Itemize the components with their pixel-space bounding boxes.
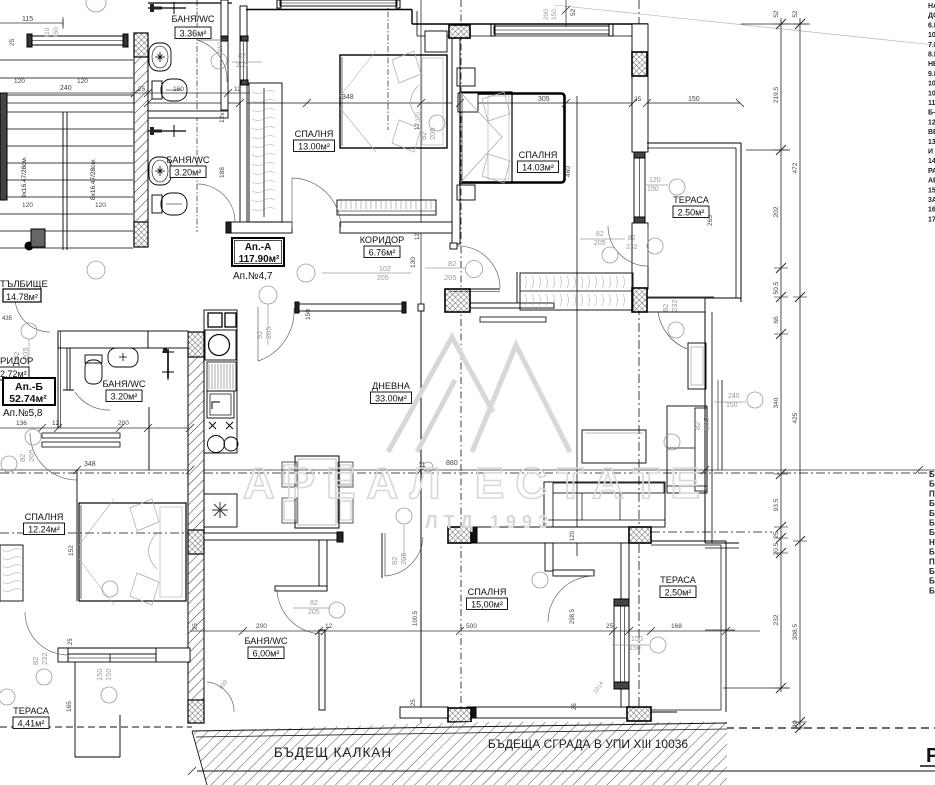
level circle entry: [466, 261, 483, 278]
svg-text:16.: 16.: [928, 207, 935, 214]
svg-text:120: 120: [22, 202, 33, 209]
svg-text:3.20м²: 3.20м²: [111, 392, 138, 402]
wall column W1: [134, 33, 148, 247]
terrace1 right: [735, 148, 737, 298]
svg-text:205: 205: [377, 275, 389, 282]
svg-text:205: 205: [428, 127, 437, 140]
dim line y631: [190, 630, 760, 632]
svg-text:82: 82: [238, 53, 246, 60]
bath6 partition v: [319, 534, 327, 590]
svg-text:205: 205: [264, 326, 273, 339]
svg-text:Ап.-А: Ап.-А: [245, 242, 272, 253]
apB bath left wall: [57, 331, 59, 428]
level 82/205 c: [602, 247, 618, 263]
svg-text:150: 150: [629, 645, 641, 652]
fridge: [204, 494, 237, 527]
window top b2: [494, 26, 609, 34]
svg-text:10: 10: [792, 720, 799, 728]
tick y631: [239, 627, 247, 635]
svg-text:25: 25: [9, 38, 16, 46]
svg-text:110: 110: [44, 27, 51, 38]
svg-text:3А: 3А: [928, 197, 935, 204]
door cap bath1: [221, 36, 228, 41]
boundary dash right: [726, 727, 935, 729]
wall y533 kitchen-bath: [204, 533, 337, 540]
svg-text:10.: 10.: [928, 90, 935, 97]
crosshatch block: [448, 527, 471, 543]
terrace1 left wall: [632, 24, 648, 152]
tick y631: [625, 627, 633, 635]
tv cabinet: [688, 343, 706, 389]
svg-text:102: 102: [379, 266, 391, 273]
dim ext y688: [723, 687, 790, 689]
wall nook b3: [545, 543, 553, 571]
svg-text:ДО: ДО: [928, 13, 935, 20]
svg-text:25: 25: [634, 96, 642, 103]
svg-text:150: 150: [631, 636, 643, 643]
tick y93: [131, 89, 139, 97]
crosshatch block: [632, 288, 647, 312]
svg-text:БАНЯ/WC: БАНЯ/WC: [102, 379, 145, 389]
svg-text:12.: 12.: [928, 119, 935, 126]
stair window: [30, 36, 125, 45]
level 82/232 t1: [647, 238, 663, 254]
tick y103: [417, 99, 425, 107]
tick y103: [456, 99, 464, 107]
tick y93: [144, 89, 152, 97]
svg-text:425: 425: [792, 412, 799, 423]
svg-text:150: 150: [305, 309, 312, 320]
black cap2: [467, 707, 476, 718]
axis line 1: [196, 0, 198, 232]
svg-text:ТЕРАСА: ТЕРАСА: [13, 706, 50, 716]
svg-text:Б: Б: [929, 480, 935, 489]
door entry cap: [450, 243, 457, 249]
svg-text:14.78м²: 14.78м²: [6, 292, 38, 302]
svg-text:200: 200: [543, 9, 550, 20]
tick y103: [236, 99, 244, 107]
dim line y428: [0, 427, 190, 429]
nook wall entry: [516, 272, 518, 303]
svg-text:205: 205: [236, 62, 248, 69]
svg-text:4,41м²: 4,41м²: [18, 719, 45, 729]
svg-text:152: 152: [68, 545, 75, 556]
bed3 wall line: [76, 470, 78, 601]
svg-text:472: 472: [792, 162, 799, 173]
nightstand B2b: [457, 185, 475, 200]
level 102/205: [297, 264, 315, 282]
svg-text:7.П: 7.П: [928, 42, 935, 49]
svg-text:100.5: 100.5: [413, 610, 419, 626]
left wall bar: [0, 93, 7, 200]
svg-text:Ап.№5,8: Ап.№5,8: [3, 408, 43, 419]
svg-text:3.20м²: 3.20м²: [175, 168, 202, 178]
svg-text:Р: Р: [926, 745, 935, 767]
dim ext y150: [746, 149, 790, 151]
door bath2: [197, 184, 235, 222]
svg-text:435: 435: [2, 316, 13, 322]
corridor wall: [295, 304, 405, 311]
svg-text:НА: НА: [928, 3, 935, 10]
bedroom2 bold outline: [459, 94, 565, 183]
level 82/205 d: [396, 508, 412, 524]
bedroom2 top wall: [412, 23, 648, 25]
sofa: [544, 482, 665, 527]
sink bath2: [149, 157, 171, 185]
terrace2 bottom: [629, 709, 721, 711]
terrace4 bottom: [75, 756, 120, 758]
crosshatch block: [632, 52, 647, 76]
svg-text:РИДОР: РИДОР: [0, 356, 33, 367]
svg-text:КОРИДОР: КОРИДОР: [360, 235, 405, 245]
svg-text:93.5: 93.5: [773, 498, 780, 511]
bath right wall: [221, 0, 228, 110]
svg-text:52: 52: [792, 10, 799, 18]
legend list bottom: [929, 470, 935, 595]
wall below window: [632, 223, 648, 289]
window b1 cap l: [277, 0, 281, 8]
crosshatch block: [629, 527, 651, 543]
watermark text: [243, 459, 711, 532]
bed B3: [79, 499, 186, 605]
svg-text:П: П: [929, 489, 935, 498]
bath6 partition h: [275, 586, 327, 591]
svg-text:117.90м²: 117.90м²: [239, 254, 280, 265]
axis bed3: [0, 532, 190, 534]
railing line: [721, 380, 723, 470]
svg-text:120: 120: [649, 177, 661, 184]
door bedroom1: [292, 178, 341, 228]
living right wall: [704, 312, 706, 543]
door apB bed: [30, 433, 77, 480]
tick y428: [186, 424, 194, 432]
tick y470: [915, 466, 923, 474]
svg-text:205: 205: [308, 609, 320, 616]
svg-text:РА: РА: [928, 168, 935, 175]
shelf1: [42, 433, 120, 438]
svg-text:6,00м²: 6,00м²: [253, 649, 280, 659]
room bath1: [171, 14, 214, 39]
svg-text:Б: Б: [929, 577, 935, 586]
svg-text:НБ: НБ: [928, 61, 935, 68]
bedroom1 left wall: [240, 6, 247, 228]
svg-text:Ап.-Б: Ап.-Б: [15, 381, 43, 393]
tick y103: [562, 99, 570, 107]
door bath1: [197, 40, 227, 82]
tick y470: [701, 466, 709, 474]
svg-text:232: 232: [670, 299, 679, 312]
svg-text:82: 82: [18, 454, 27, 462]
svg-text:Б: Б: [929, 470, 935, 479]
apB wall band: [58, 331, 148, 348]
tick y23: [62, 19, 64, 27]
room bedroom12: [24, 512, 65, 535]
bed B2: [460, 92, 512, 183]
wardrobe B3: [0, 545, 23, 601]
svg-text:92: 92: [255, 331, 264, 339]
legend list top: [928, 3, 935, 223]
door arc bath6 entry: [385, 537, 423, 576]
svg-text:168: 168: [671, 623, 682, 630]
tick y631: [722, 627, 730, 635]
svg-text:82: 82: [596, 231, 604, 238]
door bath6 inner: [277, 589, 323, 634]
svg-text:82: 82: [661, 304, 670, 312]
window cap: [614, 599, 629, 606]
svg-text:2.50м²: 2.50м²: [678, 208, 705, 218]
svg-text:ТЪЛБИЩЕ: ТЪЛБИЩЕ: [0, 279, 48, 290]
svg-text:33.00м²: 33.00м²: [375, 394, 407, 404]
svg-text:205: 205: [594, 240, 606, 247]
stair tread: [0, 77, 133, 79]
svg-text:308.5: 308.5: [792, 623, 799, 640]
level 82/205 e: [21, 323, 37, 339]
svg-text:219.5: 219.5: [773, 86, 780, 103]
svg-text:ТЕРАСА: ТЕРАСА: [673, 195, 710, 205]
svg-text:17.: 17.: [928, 216, 935, 223]
terrace2 top: [651, 540, 726, 542]
svg-text:136: 136: [16, 420, 27, 427]
svg-text:82: 82: [693, 422, 702, 430]
svg-text:ДНЕВНА: ДНЕВНА: [372, 381, 411, 391]
extension line x421: [420, 0, 422, 785]
bedroom1 top wall: [246, 9, 412, 11]
svg-text:298.5: 298.5: [570, 608, 576, 624]
axis line x639: [638, 0, 640, 785]
top wall: [148, 2, 232, 4]
svg-text:13.00м²: 13.00м²: [298, 142, 330, 152]
watermark logo: [388, 337, 570, 452]
level g: [25, 429, 41, 445]
tick y631: [456, 627, 464, 635]
svg-text:460: 460: [565, 166, 572, 177]
svg-text:20.5: 20.5: [773, 542, 780, 555]
tick y103: [629, 99, 637, 107]
svg-text:Б: Б: [929, 586, 935, 595]
room bath3: [102, 379, 145, 402]
sink bath1: [149, 43, 171, 71]
tick y103 end: [736, 99, 744, 107]
level 92/205: [259, 286, 277, 304]
terrace2 right: [720, 545, 722, 710]
svg-text:52: 52: [773, 10, 780, 18]
door bath3: [75, 392, 110, 410]
svg-text:150: 150: [647, 186, 659, 193]
future building hatch: [188, 722, 935, 785]
svg-text:ТЕРАСА: ТЕРАСА: [660, 575, 697, 585]
svg-text:СПАЛНЯ: СПАЛНЯ: [468, 587, 507, 597]
radiator bath1: [148, 2, 186, 14]
pipe bath3: [66, 347, 68, 390]
level circle bath1: [211, 53, 227, 69]
room bedroom1: [294, 129, 335, 152]
crosshatch block: [449, 25, 470, 38]
wall ext x566: [565, 0, 567, 27]
stair rail: [62, 112, 64, 250]
door leaf bath6: [381, 533, 383, 578]
svg-text:340: 340: [773, 397, 780, 408]
svg-text:10: 10: [928, 81, 935, 88]
svg-text:82: 82: [31, 657, 40, 665]
bottom wall a: [400, 707, 448, 718]
stove x2: [226, 422, 233, 429]
window cap: [614, 682, 629, 689]
svg-text:Ап.№4,7: Ап.№4,7: [233, 271, 273, 282]
svg-text:13.: 13.: [928, 139, 935, 146]
svg-text:120: 120: [77, 78, 88, 85]
svg-text:11.: 11.: [928, 100, 935, 107]
svg-text:150: 150: [104, 668, 113, 681]
wall nook b3b: [553, 570, 594, 576]
coffee table: [582, 430, 646, 463]
svg-text:150: 150: [551, 9, 558, 20]
svg-text:188: 188: [219, 167, 226, 178]
svg-text:160: 160: [173, 86, 184, 93]
svg-text:П: П: [929, 557, 935, 566]
svg-text:130: 130: [410, 257, 417, 268]
tick y470: [73, 466, 81, 474]
svg-text:3.36м²: 3.36м²: [180, 29, 207, 39]
svg-text:52.74м²: 52.74м²: [9, 393, 47, 405]
shoe shelf: [480, 317, 546, 322]
svg-text:12: 12: [325, 623, 333, 630]
dim axis y103: [0, 102, 740, 104]
svg-text:232: 232: [626, 244, 638, 251]
apartment A label: [232, 238, 284, 282]
svg-text:15,00м²: 15,00м²: [471, 600, 503, 610]
svg-text:6.76м²: 6.76м²: [369, 248, 396, 258]
svg-text:Б: Б: [929, 499, 935, 508]
svg-text:15.: 15.: [928, 187, 935, 194]
svg-text:БАНЯ/WC: БАНЯ/WC: [166, 155, 209, 165]
wall cap y533: [337, 532, 343, 542]
axis line y535: [651, 531, 772, 533]
shower wall: [319, 630, 325, 710]
site boundary diagonal: [554, 5, 935, 45]
svg-text:14.: 14.: [928, 158, 935, 165]
toilet bath1: [152, 79, 187, 101]
svg-text:Б: Б: [929, 528, 935, 537]
terrace4 side: [74, 662, 76, 757]
window b3b: [614, 599, 629, 689]
wall line x577: [576, 96, 578, 556]
axis line y473: [0, 472, 935, 474]
svg-text:ЛТД 1993: ЛТД 1993: [425, 512, 554, 532]
crosshatch block: [448, 708, 471, 722]
dim ext y630: [705, 629, 735, 631]
svg-text:150: 150: [688, 96, 700, 103]
svg-text:Б: Б: [929, 548, 935, 557]
svg-text:14.03м²: 14.03м²: [522, 163, 554, 173]
dim line 240: [0, 92, 133, 94]
bottom wall b: [471, 707, 627, 718]
tick y631: [609, 627, 617, 635]
level circle top: [86, 0, 106, 12]
svg-text:200: 200: [118, 420, 129, 427]
svg-text:СПАЛНЯ: СПАЛНЯ: [295, 129, 334, 139]
level n: [1, 456, 17, 472]
sink bath3: [108, 348, 138, 367]
svg-text:305: 305: [538, 96, 550, 103]
svg-text:8x16.47/28см.: 8x16.47/28см.: [90, 158, 97, 200]
window cap l2: [241, 80, 248, 85]
wall junction block: [31, 229, 45, 247]
b3 bottom wall: [58, 647, 190, 649]
room terrace4: [13, 706, 50, 729]
svg-text:150: 150: [95, 668, 104, 681]
bedroom1/2 wall: [452, 38, 460, 244]
dim chain right2: [793, 18, 807, 733]
svg-text:50.5: 50.5: [773, 281, 780, 294]
level 82/205 k: [329, 602, 345, 618]
level 82/232 r: [668, 322, 684, 338]
apartment B label: [3, 378, 55, 419]
level h: [102, 581, 118, 597]
level 120/150: [669, 179, 685, 195]
svg-text:66: 66: [773, 316, 780, 324]
sofa chaise: [667, 406, 707, 493]
room terrace1: [673, 195, 710, 218]
svg-text:12: 12: [415, 233, 421, 240]
svg-text:25: 25: [68, 638, 74, 645]
window b1 top: [280, 0, 397, 6]
room bath2: [166, 155, 209, 178]
svg-text:Б: Б: [929, 567, 935, 576]
dim chain right1: [774, 18, 788, 693]
svg-text:115: 115: [22, 16, 33, 23]
svg-text:12: 12: [415, 123, 421, 130]
wall niche: [458, 93, 478, 112]
bottom boundary line: [197, 770, 935, 772]
svg-text:Н: Н: [929, 538, 935, 547]
door terrace1: [608, 226, 648, 266]
svg-text:105: 105: [928, 32, 935, 39]
svg-text:232: 232: [40, 652, 49, 665]
stair post: [25, 242, 34, 251]
level 82/205 b: [429, 115, 445, 131]
svg-text:12x: 12x: [219, 112, 226, 123]
svg-text:И Б: И Б: [928, 149, 935, 156]
svg-text:82: 82: [448, 259, 456, 268]
svg-text:120: 120: [570, 530, 576, 541]
wall y222 left: [231, 222, 292, 233]
crosshatch block: [445, 289, 470, 312]
window b3: [68, 654, 156, 662]
svg-text:25: 25: [193, 623, 199, 630]
svg-text:9x16.47/28см.: 9x16.47/28см.: [21, 156, 28, 198]
svg-text:25: 25: [606, 623, 614, 630]
b3t2 wall: [621, 543, 629, 707]
text kalkan: [262, 741, 404, 761]
svg-text:25: 25: [572, 703, 578, 710]
tick y428: [116, 424, 124, 432]
door b3 top: [548, 576, 594, 622]
svg-text:120: 120: [14, 78, 25, 85]
svg-text:82: 82: [419, 132, 428, 140]
tick y103: [643, 99, 651, 107]
tick y631: [315, 627, 323, 635]
level m: [87, 261, 105, 279]
door entry leaf: [450, 288, 500, 290]
svg-text:348: 348: [84, 461, 96, 468]
door arc right: [658, 312, 687, 349]
door apB: [15, 297, 50, 332]
room bedroom3: [467, 587, 508, 610]
window b1 cap r: [396, 0, 400, 8]
svg-text:232: 232: [773, 614, 780, 625]
shelf2: [42, 442, 120, 447]
stair line: [0, 59, 133, 61]
